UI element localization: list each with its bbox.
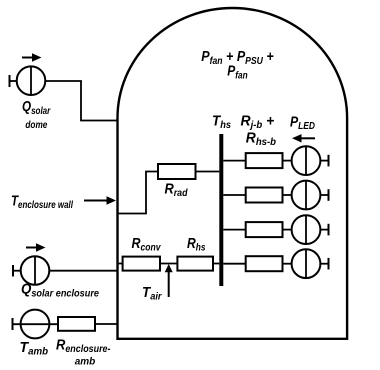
svg-text:Rconv: Rconv — [132, 236, 162, 254]
arrow to enclosure wall — [84, 200, 108, 202]
wire wall to R_conv — [119, 263, 123, 265]
svg-text:Pfan + PPSU +: Pfan + PPSU + — [201, 49, 274, 67]
svg-text:Rhs-b: Rhs-b — [246, 130, 276, 148]
svg-text:Tenclosure wall: Tenclosure wall — [11, 194, 73, 212]
current source Q_solar_enclosure — [13, 243, 49, 285]
wire R_hs to bus — [213, 263, 219, 265]
svg-text:Tair: Tair — [142, 285, 163, 303]
LED branch 1: wire, resistor R_j-b+R_hs-b, source P_LED, terminal — [223, 146, 328, 175]
resistor R_hs — [177, 257, 213, 271]
resistor R_enclosure-amb — [58, 317, 95, 331]
LED branch 4 — [223, 249, 328, 278]
resistor R_conv — [123, 257, 160, 271]
arrow P_LED — [300, 137, 315, 139]
svg-text:Rrad: Rrad — [165, 182, 189, 200]
enclosure dome outline — [118, 8, 348, 339]
svg-text:Rj-b +: Rj-b + — [241, 114, 275, 132]
svg-text:dome: dome — [25, 120, 47, 131]
svg-text:amb: amb — [75, 357, 96, 368]
svg-text:Qsolar: Qsolar — [22, 99, 51, 117]
current source Q_solar_dome — [10, 53, 46, 95]
arrow T_air — [168, 271, 170, 297]
wire R_enclosure-amb to enclosure wall — [95, 323, 117, 325]
node T_hs bus — [219, 134, 223, 286]
svg-text:Ths: Ths — [212, 114, 231, 132]
resistor R_rad — [158, 164, 196, 179]
svg-text:Renclosure-: Renclosure- — [56, 338, 111, 356]
temperature source T_amb — [13, 310, 59, 339]
wire Q_solar_dome to enclosure wall — [45, 81, 116, 121]
svg-text:Tamb: Tamb — [20, 340, 49, 358]
LED branch 3 — [223, 215, 328, 244]
wire R_rad to bus — [196, 171, 220, 173]
wire R_conv to R_hs junction — [160, 263, 177, 265]
svg-text:PLED: PLED — [290, 115, 315, 133]
svg-text:Rhs: Rhs — [187, 236, 206, 254]
wire Q_solar_enclosure to enclosure wall — [49, 270, 116, 272]
wire enclosure wall to R_rad — [117, 172, 158, 214]
LED branch 2 — [223, 181, 328, 210]
